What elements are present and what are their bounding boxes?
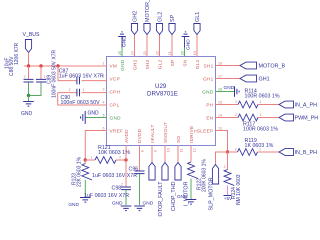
svg-text:18: 18	[218, 61, 222, 65]
capacitor C89 100nF 0603 50V	[40, 66, 42, 79]
svg-text:1: 1	[83, 88, 85, 92]
resistor R117 100R 0603 1%	[238, 114, 258, 121]
power symbol +5V	[224, 195, 232, 197]
resistor R119 1K 0603 1%	[238, 149, 258, 156]
svg-text:GND: GND	[88, 110, 100, 116]
wire MOTOR_A (SH2) pin stub	[146, 35, 148, 57]
svg-text:1: 1	[44, 75, 46, 79]
svg-text:11: 11	[179, 149, 183, 153]
svg-text:IN_A_PH: IN_A_PH	[295, 103, 318, 109]
svg-text:GND: GND	[120, 59, 125, 71]
svg-text:1: 1	[260, 100, 262, 104]
svg-text:GH2: GH2	[132, 11, 138, 22]
svg-text:GL1: GL1	[195, 59, 200, 69]
svg-text:GH1: GH1	[203, 76, 214, 81]
resistor R121 10K 0603 1%	[85, 159, 95, 161]
svg-text:GL1: GL1	[195, 12, 201, 22]
node junction nSLEEP net	[226, 150, 229, 153]
port SLP_MOTOR	[212, 165, 218, 185]
port IN_A_PH	[279, 101, 294, 108]
ground symbol at GND pin 5	[86, 117, 108, 119]
svg-text:24: 24	[130, 51, 134, 55]
port SP	[169, 24, 175, 35]
svg-text:10K 0603 1%: 10K 0603 1%	[98, 150, 130, 156]
wire SO down	[177, 146, 179, 163]
wire GH1 to port	[216, 78, 240, 80]
svg-text:2: 2	[235, 113, 237, 117]
svg-text:GND: GND	[202, 89, 214, 94]
node junction V_BUS/rail	[27, 64, 30, 67]
wire EN to R117	[216, 117, 238, 119]
svg-text:1uF 0603 16V X7R: 1uF 0603 16V X7R	[84, 193, 129, 199]
svg-text:2: 2	[70, 75, 72, 79]
svg-text:1206 X7R: 1206 X7R	[14, 42, 20, 65]
svg-text:2: 2	[135, 166, 137, 170]
svg-text:GND: GND	[121, 36, 127, 47]
ground symbol above SN pin 20	[184, 48, 186, 57]
svg-text:VCP: VCP	[110, 76, 121, 81]
svg-text:8: 8	[140, 150, 144, 152]
svg-text:+5V: +5V	[224, 196, 233, 201]
svg-text:SP: SP	[170, 60, 175, 67]
svg-text:MOTOR_FAULT: MOTOR_FAULT	[158, 181, 164, 217]
svg-text:100R 0603 1%: 100R 0603 1%	[243, 127, 278, 133]
svg-text:AVDD: AVDD	[124, 129, 129, 143]
svg-text:MOTOR_A: MOTOR_A	[145, 0, 151, 22]
svg-text:100R 0603 1%: 100R 0603 1%	[245, 94, 280, 100]
svg-text:GND: GND	[224, 85, 235, 91]
port IN_B_PH	[279, 149, 294, 156]
capacitor C98 1uF 0603 16V X7R	[125, 160, 127, 187]
svg-text:nFAULT: nFAULT	[150, 124, 155, 143]
capacitor C87 1uF 0603 16V X7R	[58, 66, 77, 81]
svg-text:SN: SN	[183, 60, 188, 67]
wire GL1 pin stub	[196, 35, 198, 57]
svg-text:VREF: VREF	[110, 128, 124, 133]
svg-text:GND: GND	[110, 115, 122, 120]
svg-text:4: 4	[103, 100, 105, 104]
svg-text:VM: VM	[110, 63, 118, 68]
wire GL2 pin stub	[159, 35, 161, 57]
ground symbol below R122	[186, 200, 197, 205]
wire nSLEEP to junction	[216, 131, 228, 153]
svg-text:2: 2	[224, 165, 226, 169]
svg-text:2: 2	[119, 156, 121, 160]
ground symbol above GND pin 25	[121, 48, 123, 57]
svg-text:22: 22	[155, 51, 159, 55]
svg-text:SNSOUT: SNSOUT	[163, 122, 168, 143]
ground symbol at GND pin 16	[216, 91, 234, 93]
resistor R123 22K 0603 1%	[82, 164, 92, 181]
wire VREF to divider	[85, 131, 107, 161]
svg-text:15: 15	[218, 100, 222, 104]
port MOTOR_B	[240, 62, 257, 69]
port I_MOTOR	[175, 163, 181, 181]
wire nFAULT down	[151, 146, 153, 163]
svg-text:1: 1	[103, 61, 105, 65]
svg-text:NM 10K 0603: NM 10K 0603	[236, 174, 242, 205]
svg-text:1: 1	[259, 148, 261, 152]
svg-text:C98: C98	[112, 186, 122, 192]
port GL1	[194, 24, 200, 35]
svg-text:SLP_MOTOR: SLP_MOTOR	[209, 177, 215, 210]
svg-text:GND: GND	[143, 200, 154, 206]
svg-text:200K 0603 1%: 200K 0603 1%	[201, 159, 207, 192]
svg-text:GND: GND	[186, 39, 192, 50]
wire DVDD down	[139, 146, 141, 171]
svg-text:U29: U29	[155, 83, 167, 90]
svg-text:6: 6	[103, 126, 105, 130]
port MOTOR_FAULT	[149, 163, 155, 181]
svg-text:1uF 0603 16V X7R: 1uF 0603 16V X7R	[59, 74, 104, 80]
node junction VREF/R121/R123	[84, 158, 87, 161]
wire NM lead to +5V	[227, 186, 229, 196]
ground symbol below R123	[80, 198, 91, 203]
svg-text:GND: GND	[68, 202, 79, 208]
svg-text:23: 23	[143, 51, 147, 55]
node junction C87 branch/rail	[56, 64, 59, 67]
svg-text:9: 9	[153, 150, 157, 152]
svg-text:13: 13	[218, 126, 222, 130]
svg-text:3: 3	[103, 87, 105, 91]
svg-text:17: 17	[218, 74, 222, 78]
svg-text:C96: C96	[129, 167, 139, 173]
resistor R122 200K 0603 vertical	[190, 146, 192, 163]
svg-text:21: 21	[168, 51, 172, 55]
svg-text:100nF 0603 50V: 100nF 0603 50V	[61, 100, 101, 106]
resistor R114 100R 0603 1%	[238, 101, 258, 108]
svg-text:2: 2	[69, 88, 71, 92]
IC U29 DRV8701E gate driver body	[107, 57, 216, 146]
svg-text:DVDD: DVDD	[137, 128, 142, 143]
wire GH2 pin stub	[134, 35, 136, 57]
svg-text:16: 16	[218, 87, 222, 91]
svg-text:2: 2	[121, 182, 123, 186]
svg-text:10: 10	[166, 148, 170, 152]
wire AVDD down	[125, 146, 127, 161]
ground symbol below C98	[121, 206, 132, 211]
port GL2	[156, 24, 162, 35]
svg-text:PH: PH	[206, 102, 213, 107]
capacitor C88 10uF 50V 1206	[28, 66, 30, 79]
port GH1	[240, 75, 257, 82]
svg-text:1: 1	[91, 156, 93, 160]
ground symbol below C88/C89	[28, 96, 30, 102]
port GH2	[131, 24, 137, 35]
svg-text:GND: GND	[177, 194, 188, 200]
svg-text:GH1: GH1	[259, 77, 270, 83]
svg-text:PWM_PH: PWM_PH	[295, 116, 319, 122]
port CHOP_THD	[162, 163, 168, 181]
svg-text:GND: GND	[21, 111, 33, 117]
wire SP pin stub	[171, 35, 173, 57]
svg-text:2: 2	[24, 75, 26, 79]
svg-text:25: 25	[118, 51, 122, 55]
wire junction to SLP_MOTOR port	[216, 152, 228, 165]
svg-text:14: 14	[218, 113, 222, 117]
svg-text:20: 20	[180, 51, 184, 55]
wire VM rail	[24, 65, 107, 67]
svg-text:19: 19	[193, 51, 197, 55]
svg-text:2: 2	[235, 100, 237, 104]
svg-text:MOTOR_B: MOTOR_B	[259, 64, 286, 70]
svg-text:IDRIVE: IDRIVE	[189, 126, 194, 143]
svg-text:1: 1	[260, 113, 262, 117]
svg-text:SH2: SH2	[145, 59, 150, 69]
wire V_BUS drop to rail	[28, 53, 30, 67]
svg-text:SO: SO	[176, 136, 181, 143]
svg-text:GND: GND	[112, 200, 123, 206]
wire SNSOUT down	[164, 146, 166, 163]
wire PH to R114	[216, 104, 238, 106]
resistor R124 NM 10K 0603 pullup	[227, 152, 229, 170]
wire junction to R119	[228, 151, 238, 153]
port PWM_PH	[279, 114, 294, 121]
svg-text:SP: SP	[170, 14, 176, 22]
capacitor C90 100nF 0603 50V flying cap	[58, 92, 77, 94]
svg-text:5: 5	[103, 113, 105, 117]
port MOTOR_A (SH2)	[144, 24, 150, 35]
svg-text:nSLEEP: nSLEEP	[194, 128, 214, 133]
node junction C89/rail	[39, 64, 42, 67]
svg-text:12: 12	[192, 148, 196, 152]
power port V_BUS	[25, 40, 31, 53]
capacitor C96 1uF 0603 16V X7R	[135, 171, 145, 174]
svg-text:GL2: GL2	[157, 12, 163, 22]
svg-text:DRV8701E: DRV8701E	[147, 91, 178, 98]
svg-text:1uF 0603 16V X7R: 1uF 0603 16V X7R	[92, 173, 137, 179]
svg-text:V_BUS: V_BUS	[23, 32, 41, 38]
svg-text:EN: EN	[206, 115, 213, 120]
node junction R121/AVDD/C98	[124, 158, 127, 161]
svg-text:100nF 0603 50V X7R: 100nF 0603 50V X7R	[51, 50, 57, 98]
svg-text:GL2: GL2	[158, 59, 163, 69]
svg-text:CPL: CPL	[110, 102, 120, 107]
svg-text:GH2: GH2	[133, 59, 138, 70]
svg-text:22K 0603 1%: 22K 0603 1%	[76, 156, 82, 187]
svg-text:SH1: SH1	[203, 63, 213, 68]
wire SH1 to MOTOR_B	[216, 65, 240, 67]
node junction cap grounds	[27, 94, 30, 97]
svg-text:CPH: CPH	[110, 89, 121, 94]
svg-text:2: 2	[235, 148, 237, 152]
svg-text:IN_B_PH: IN_B_PH	[295, 150, 318, 156]
ground symbol below C96	[134, 206, 145, 211]
